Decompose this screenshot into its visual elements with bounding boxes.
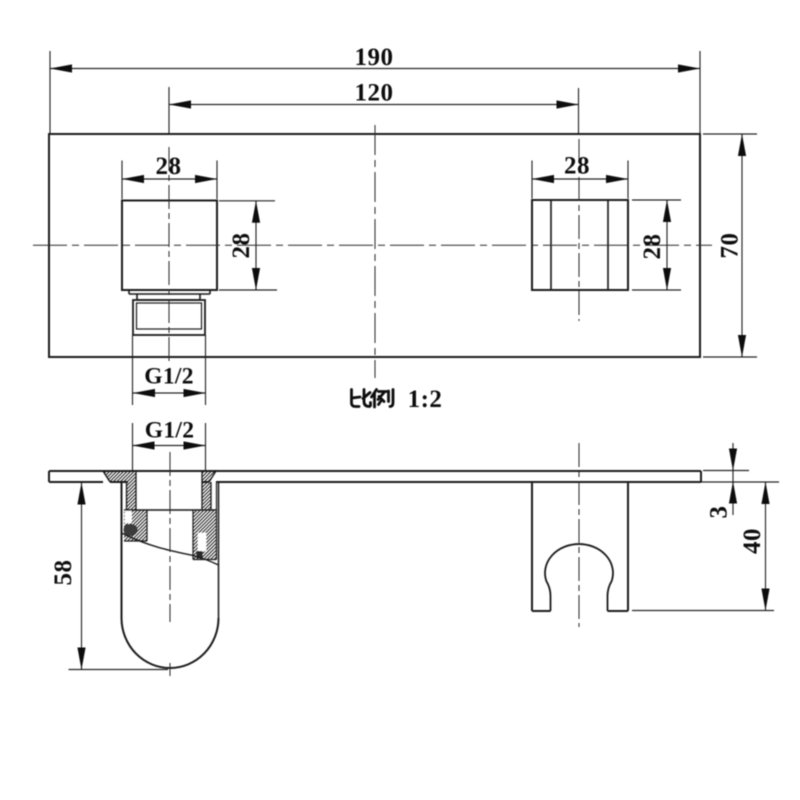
- svg-text:40: 40: [739, 528, 766, 554]
- svg-text:G1/2: G1/2: [144, 364, 194, 390]
- svg-text:190: 190: [355, 44, 394, 71]
- svg-text:70: 70: [717, 233, 744, 259]
- svg-text:G1/2: G1/2: [145, 418, 195, 444]
- svg-text:28: 28: [228, 233, 255, 259]
- svg-text:58: 58: [50, 560, 77, 586]
- svg-text:28: 28: [156, 153, 182, 180]
- svg-text:1:2: 1:2: [408, 386, 443, 413]
- svg-text:28: 28: [564, 153, 590, 180]
- svg-text:120: 120: [355, 80, 394, 107]
- svg-text:3: 3: [706, 506, 733, 519]
- svg-text:28: 28: [639, 234, 666, 260]
